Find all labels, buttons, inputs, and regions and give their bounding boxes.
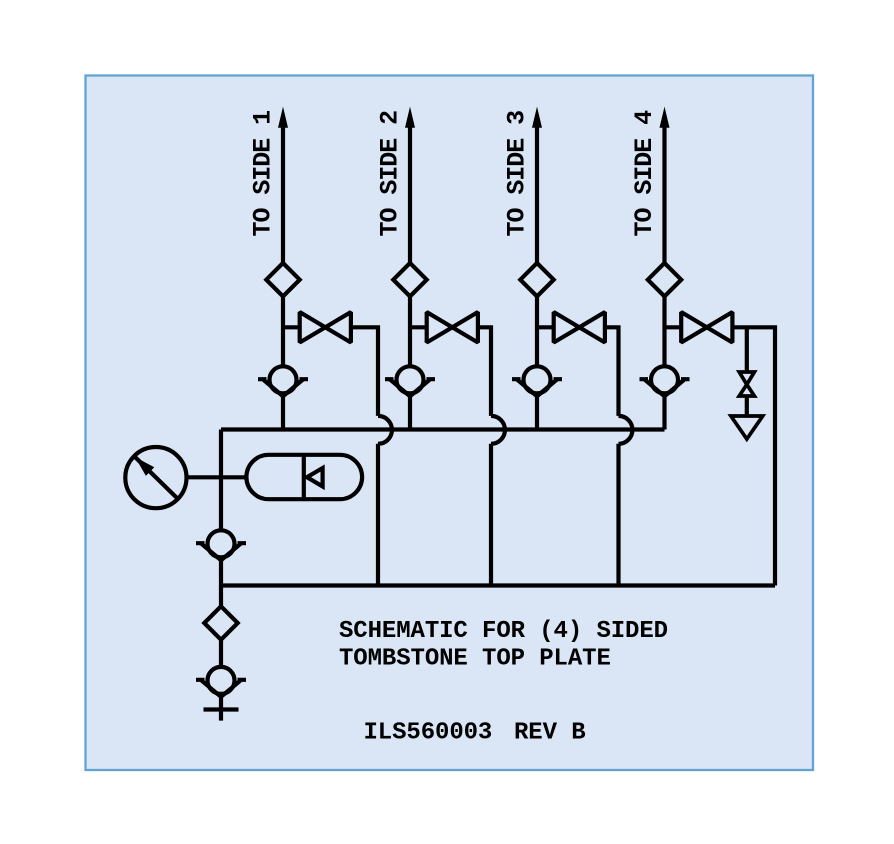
svg-text:SCHEMATIC FOR (4) SIDED: SCHEMATIC FOR (4) SIDED: [339, 618, 668, 645]
svg-text:TO SIDE 2: TO SIDE 2: [375, 111, 404, 237]
svg-text:ILS560003: ILS560003: [364, 720, 493, 747]
svg-text:TOMBSTONE TOP PLATE: TOMBSTONE TOP PLATE: [339, 646, 611, 673]
svg-text:REV B: REV B: [514, 720, 586, 747]
svg-text:TO SIDE 1: TO SIDE 1: [248, 111, 277, 237]
svg-text:TO SIDE 3: TO SIDE 3: [502, 111, 531, 237]
svg-text:TO SIDE 4: TO SIDE 4: [630, 110, 659, 237]
